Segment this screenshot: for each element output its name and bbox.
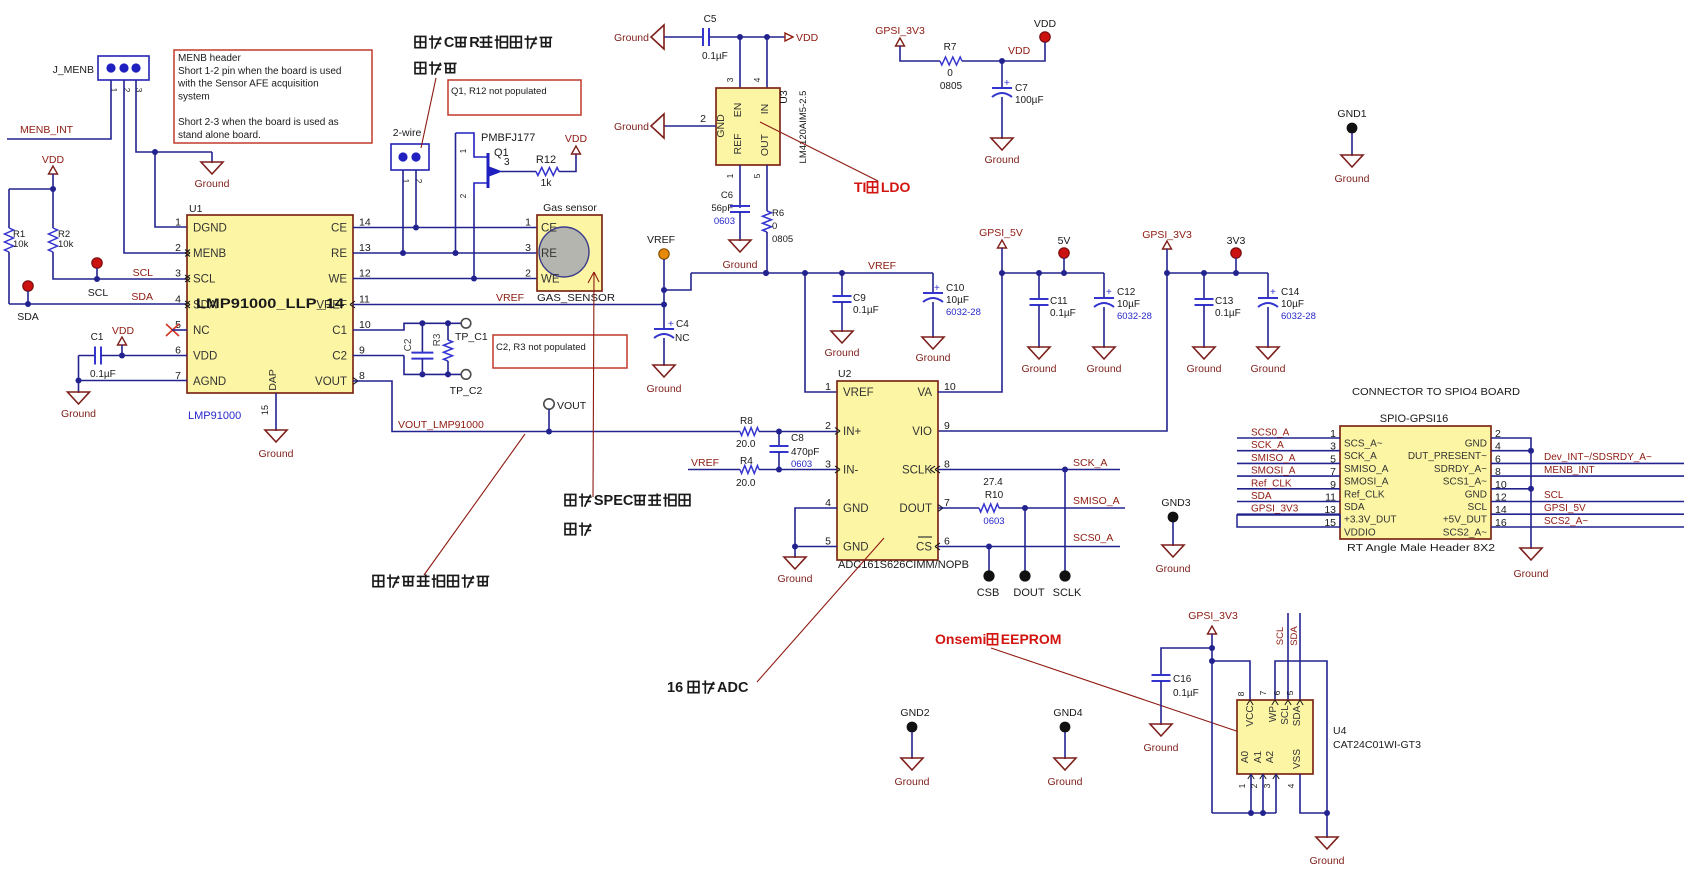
- ground (U3 GND): [614, 114, 664, 138]
- resistor R10 27.4 0603: [938, 477, 1005, 527]
- svg-text:CAT24C01WI-GT3: CAT24C01WI-GT3: [1333, 739, 1421, 751]
- ground (C7): [984, 138, 1019, 166]
- svg-text:7: 7: [1258, 690, 1268, 695]
- svg-text:1: 1: [459, 148, 468, 153]
- ground (C9): [824, 331, 859, 359]
- svg-text:GPSI_3V3: GPSI_3V3: [1251, 504, 1299, 515]
- wire CE: [353, 227, 537, 229]
- svg-text:TP_C2: TP_C2: [450, 385, 483, 397]
- testpoint VOUT: [544, 399, 587, 432]
- svg-text:WE: WE: [328, 274, 347, 286]
- svg-text:27.4: 27.4: [983, 477, 1003, 488]
- svg-text:6032-28: 6032-28: [1281, 311, 1316, 322]
- wire U1 pin5 stub: [172, 329, 187, 331]
- no-connect X on U1 pin5 NC: [166, 324, 179, 336]
- svg-text:16: 16: [667, 680, 683, 696]
- svg-text:10µF: 10µF: [946, 295, 969, 306]
- svg-text:VDD: VDD: [112, 325, 135, 337]
- svg-text:GND4: GND4: [1053, 707, 1082, 719]
- svg-text:4: 4: [1286, 783, 1296, 788]
- ground (C10): [915, 337, 950, 364]
- svg-text:20.0: 20.0: [736, 439, 756, 450]
- svg-text:TI: TI: [854, 179, 866, 195]
- wire net SMOSI_A (connector pin 7): [1237, 466, 1340, 477]
- svg-text:SCL: SCL: [133, 267, 154, 279]
- svg-text:SCL: SCL: [193, 274, 216, 286]
- svg-text:56pF: 56pF: [711, 203, 733, 214]
- svg-text:SDRDY_A~: SDRDY_A~: [1434, 464, 1487, 475]
- capacitor C2 (not populated): [403, 323, 433, 374]
- ground (U2 GND): [777, 547, 812, 586]
- capacitor C5 0.1uF: [664, 14, 740, 62]
- svg-text:IN-: IN-: [843, 465, 859, 477]
- svg-text:GND3: GND3: [1161, 497, 1190, 509]
- svg-text:+5V_DUT: +5V_DUT: [1443, 515, 1487, 526]
- ground (AGND/C1): [61, 381, 96, 421]
- svg-text:SCS0_A: SCS0_A: [1073, 532, 1113, 544]
- svg-text:0.1µF: 0.1µF: [1050, 308, 1076, 319]
- svg-text:MENB: MENB: [193, 248, 227, 260]
- svg-text:A0: A0: [1240, 750, 1251, 763]
- svg-text:5V: 5V: [1058, 235, 1071, 247]
- svg-text:VDD: VDD: [1008, 45, 1031, 57]
- testpoint VREF (orange): [647, 234, 675, 308]
- svg-text:Onsemi: Onsemi: [935, 631, 986, 647]
- svg-text:C8: C8: [791, 433, 804, 444]
- svg-text:8: 8: [1236, 691, 1246, 696]
- wire bottom rail to TP_C2: [353, 356, 461, 378]
- capacitor C14 10uF 6032-28: [1258, 273, 1316, 347]
- svg-text:DOUT: DOUT: [899, 503, 932, 515]
- svg-text:VDD: VDD: [1034, 18, 1057, 30]
- connector SPIO-GPSI16 header: [1340, 386, 1520, 539]
- svg-text:VDD: VDD: [565, 133, 588, 145]
- svg-text:VREF: VREF: [691, 457, 719, 469]
- annotation analog voltage output (Chinese): [373, 434, 525, 588]
- svg-text:C2, R3 not populated: C2, R3 not populated: [496, 342, 586, 353]
- power 5V (red testpoint): [1058, 235, 1071, 273]
- ground (GND2): [894, 758, 929, 788]
- svg-text:Ground: Ground: [1143, 742, 1178, 754]
- svg-text:AGND: AGND: [193, 376, 226, 388]
- svg-text:Ground: Ground: [915, 352, 950, 364]
- wire net SMISO_A (connector pin 5): [1237, 453, 1340, 464]
- svg-text:C6: C6: [721, 190, 733, 201]
- wire VREF rail: [691, 270, 933, 276]
- wire net SCS0_A (connector pin 1): [1237, 428, 1340, 439]
- svg-text:Ground: Ground: [722, 259, 757, 271]
- svg-text:6: 6: [1272, 690, 1282, 695]
- capacitor C13 0.1uF: [1195, 273, 1241, 347]
- net GPSI_3V3 (rail): [1142, 229, 1192, 276]
- power VDD (R1/R2 pullups): [42, 154, 65, 189]
- svg-text:VCC: VCC: [1245, 705, 1256, 726]
- svg-text:SCL: SCL: [1275, 627, 1286, 645]
- svg-text:Ground: Ground: [1513, 568, 1548, 580]
- svg-text:2: 2: [700, 113, 706, 125]
- svg-text:DGND: DGND: [193, 223, 227, 235]
- svg-text:Short 2-3 when the board is us: Short 2-3 when the board is used as: [178, 117, 339, 128]
- wire WE: [353, 278, 537, 280]
- ground (GND3): [1155, 545, 1190, 575]
- power VDD (C1): [112, 325, 135, 359]
- resistor R3 (not populated): [432, 323, 453, 374]
- capacitor C4 NC: [654, 305, 689, 366]
- wire connector pin4: [1491, 448, 1534, 454]
- svg-text:Ground: Ground: [777, 573, 812, 585]
- svg-text:MENB header: MENB header: [178, 53, 241, 64]
- svg-text:3: 3: [725, 77, 735, 82]
- svg-text:0805: 0805: [940, 81, 963, 92]
- svg-text:SMISO_A: SMISO_A: [1073, 495, 1120, 507]
- svg-text:GAS_SENSOR: GAS_SENSOR: [537, 292, 615, 304]
- wire SCS0_A net: [938, 532, 1120, 550]
- svg-text:VDDIO: VDDIO: [1344, 528, 1376, 539]
- svg-text:NC: NC: [193, 325, 210, 337]
- wire net GPSI_5V (pin 14): [1491, 503, 1684, 514]
- svg-text:C4: C4: [676, 319, 689, 330]
- svg-text:IN: IN: [759, 104, 771, 115]
- svg-text:LDO: LDO: [881, 179, 911, 195]
- pin arrows U2: [835, 428, 943, 550]
- wire WP pin7 to ground rail: [1258, 661, 1327, 813]
- svg-text:ADC161S626CIMM/NOPB: ADC161S626CIMM/NOPB: [838, 559, 969, 571]
- svg-text:EEPROM: EEPROM: [1001, 631, 1062, 647]
- wire VSS pin4 to ground: [1286, 774, 1330, 816]
- wire J_MENB pin2 to U1 MENB: [124, 80, 187, 253]
- svg-text:GND: GND: [715, 114, 727, 138]
- ground (U4 VSS): [1309, 813, 1344, 867]
- svg-text:SCS2_A~: SCS2_A~: [1544, 516, 1588, 527]
- svg-text:C9: C9: [853, 293, 866, 304]
- svg-text:2: 2: [459, 193, 468, 198]
- svg-text:C10: C10: [946, 283, 965, 294]
- svg-text:SDA: SDA: [131, 291, 153, 303]
- svg-text:C7: C7: [1015, 83, 1028, 94]
- svg-text:470pF: 470pF: [791, 447, 819, 458]
- svg-text:CONNECTOR TO SPIO4 BOARD: CONNECTOR TO SPIO4 BOARD: [1352, 386, 1520, 398]
- svg-text:Ref_CLK: Ref_CLK: [1344, 489, 1385, 500]
- svg-text:C2: C2: [403, 338, 414, 351]
- svg-text:Ref_CLK: Ref_CLK: [1251, 478, 1292, 489]
- svg-text:MENB_INT: MENB_INT: [1544, 465, 1595, 476]
- svg-text:VOUT: VOUT: [557, 400, 587, 412]
- wire net SCS2_A~ (pin 16): [1491, 516, 1684, 527]
- svg-text:RE: RE: [331, 248, 347, 260]
- svg-text:Ground: Ground: [824, 347, 859, 359]
- svg-text:GND1: GND1: [1337, 108, 1366, 120]
- svg-text:Ground: Ground: [614, 121, 649, 133]
- svg-text:6032-28: 6032-28: [946, 307, 981, 318]
- svg-text:SPEC: SPEC: [594, 493, 634, 509]
- net GPSI_3V3 (EEPROM): [1188, 610, 1238, 813]
- svg-text:LMP91000: LMP91000: [188, 410, 241, 422]
- note box C2 R3 not populated: [493, 335, 627, 368]
- svg-text:2: 2: [175, 242, 181, 254]
- svg-text:VDD: VDD: [796, 32, 819, 44]
- svg-text:+: +: [1106, 287, 1112, 298]
- ground (C4): [646, 365, 681, 395]
- note box MENB header instructions: [174, 50, 372, 143]
- power VDD (C5 rail): [785, 32, 819, 44]
- svg-text:WP: WP: [1268, 706, 1279, 722]
- svg-text:Dev_INT~/SDSRDY_A~: Dev_INT~/SDSRDY_A~: [1544, 452, 1652, 463]
- testpoint GND2: [900, 707, 929, 758]
- wire RE: [353, 252, 537, 254]
- ground (DAP): [258, 430, 293, 460]
- svg-text:C1: C1: [332, 325, 347, 337]
- wire connector pin10 GND: [1491, 486, 1534, 492]
- capacitor C12 10uF 6032-28: [1094, 273, 1152, 347]
- svg-text:system: system: [178, 91, 210, 102]
- svg-text:SCL: SCL: [1544, 490, 1564, 501]
- wire VCC pin8: [1212, 661, 1250, 700]
- wire U3 OUT to VREF rail: [763, 270, 769, 276]
- svg-text:R6: R6: [772, 208, 784, 219]
- testpoint SDA (red): [17, 281, 39, 323]
- wire U3 GND pin2: [664, 113, 716, 126]
- wire SCK_A net: [938, 457, 1120, 473]
- capacitor C16 0.1uF: [1152, 648, 1213, 724]
- svg-text:GND: GND: [1465, 439, 1487, 450]
- ground (C5): [614, 25, 664, 49]
- wire net SDA (connector pin 11): [1237, 491, 1340, 502]
- svg-text:U1: U1: [189, 203, 203, 215]
- svg-text:SDA: SDA: [1344, 502, 1365, 513]
- svg-text:C2: C2: [332, 351, 347, 363]
- svg-text:Ground: Ground: [1047, 776, 1082, 788]
- testpoint SCLK: [1053, 470, 1082, 600]
- IC U3 LM4120AIM5-2.5 LDO: [715, 88, 809, 165]
- svg-text:Gas sensor: Gas sensor: [543, 202, 597, 214]
- svg-text:Q1, R12 not populated: Q1, R12 not populated: [451, 86, 547, 97]
- svg-text:0805: 0805: [772, 234, 793, 245]
- wire U2 GND pins to ground: [792, 508, 837, 550]
- svg-text:C16: C16: [1173, 674, 1192, 685]
- svg-text:Ground: Ground: [258, 448, 293, 460]
- svg-text:4: 4: [752, 77, 762, 82]
- svg-text:MENB_INT: MENB_INT: [20, 124, 74, 136]
- ground (GND4): [1047, 758, 1082, 788]
- svg-text:RE: RE: [541, 248, 557, 260]
- wire C5 to VDD arrow: [737, 34, 785, 40]
- svg-text:SCK_A: SCK_A: [1251, 440, 1284, 451]
- wire 2-wire pin2 to CE: [413, 170, 419, 231]
- svg-text:2-wire: 2-wire: [393, 127, 422, 139]
- svg-text:C14: C14: [1281, 287, 1300, 298]
- net GPSI_5V: [979, 227, 1023, 276]
- wire 2-wire pin1 to RE: [400, 170, 406, 256]
- resistor R1 10k: [5, 189, 29, 304]
- resistor R8 20.0: [736, 416, 837, 450]
- svg-text:Ground: Ground: [1309, 855, 1344, 867]
- svg-text:R8: R8: [740, 416, 753, 427]
- svg-text:DOUT: DOUT: [1013, 587, 1044, 599]
- svg-text:SCLK: SCLK: [902, 465, 932, 477]
- svg-text:SMOSI_A: SMOSI_A: [1344, 477, 1389, 488]
- svg-text:15: 15: [260, 405, 270, 415]
- svg-text:VREF: VREF: [647, 234, 675, 246]
- annotation TI LDO (red): [760, 122, 911, 195]
- svg-text:GND: GND: [1465, 489, 1487, 500]
- wire VOUT_LMP91000 / IN+ net: [353, 381, 740, 435]
- svg-text:Ground: Ground: [1021, 363, 1056, 375]
- svg-text:SCS1_A~: SCS1_A~: [1443, 477, 1487, 488]
- svg-text:3: 3: [1262, 783, 1272, 788]
- svg-text:WE: WE: [541, 274, 560, 286]
- wire SMISO_A net: [999, 495, 1125, 511]
- svg-text:C: C: [444, 35, 455, 51]
- svg-text:GPSI_3V3: GPSI_3V3: [1188, 610, 1238, 622]
- svg-text:DAP: DAP: [267, 369, 279, 391]
- svg-text:R3: R3: [432, 333, 443, 346]
- svg-text:Ground: Ground: [1086, 363, 1121, 375]
- svg-text:VA: VA: [918, 387, 933, 399]
- annotation 16-bit ADC (Chinese): [667, 538, 884, 696]
- svg-text:C5: C5: [704, 14, 717, 25]
- wire SDA to U1: [9, 303, 187, 305]
- svg-text:IN+: IN+: [843, 426, 862, 438]
- ground (connector): [1513, 544, 1548, 580]
- svg-text:LMP91000_LLP_14: LMP91000_LLP_14: [196, 295, 344, 311]
- svg-text:1: 1: [525, 217, 531, 229]
- svg-text:VOUT: VOUT: [315, 376, 347, 388]
- svg-text:3: 3: [525, 242, 531, 254]
- resistor R12 1k: [501, 154, 559, 189]
- svg-text:6032-28: 6032-28: [1117, 311, 1152, 322]
- svg-text:C1: C1: [91, 332, 104, 343]
- svg-text:0603: 0603: [714, 216, 735, 227]
- svg-text:stand alone board.: stand alone board.: [178, 130, 261, 141]
- svg-text:OUT: OUT: [759, 133, 771, 156]
- svg-text:3: 3: [504, 157, 510, 168]
- svg-text:10k: 10k: [13, 239, 29, 250]
- svg-text:VSS: VSS: [1292, 749, 1303, 769]
- annotation line to 2-wire: [421, 78, 436, 148]
- svg-text:100µF: 100µF: [1015, 95, 1044, 106]
- ground (C16): [1143, 724, 1178, 754]
- svg-text:GND: GND: [843, 542, 869, 554]
- testpoint GND3: [1161, 497, 1190, 545]
- testpoint GND1: [1337, 108, 1366, 155]
- svg-text:VDD: VDD: [42, 154, 65, 166]
- svg-text:Ground: Ground: [894, 776, 929, 788]
- svg-text:SCL: SCL: [1280, 705, 1291, 725]
- wire 3V3 rail: [1167, 270, 1268, 276]
- svg-text:3V3: 3V3: [1227, 235, 1246, 247]
- wire U2 VA to 5V rail: [938, 273, 1002, 392]
- annotation text short C and R pins (Chinese): [415, 35, 552, 75]
- svg-text:3: 3: [175, 268, 181, 280]
- wire 5V rail: [1002, 270, 1104, 276]
- connector 2-wire header: [391, 127, 429, 184]
- svg-text:SCS0_A: SCS0_A: [1251, 428, 1290, 439]
- svg-text:VREF: VREF: [496, 292, 524, 304]
- svg-text:SDA: SDA: [1251, 491, 1272, 502]
- IC U4 CAT24C01WI-GT3 EEPROM: [1237, 700, 1421, 779]
- capacitor C9 0.1uF: [833, 273, 879, 331]
- svg-text:GPSI_3V3: GPSI_3V3: [875, 25, 925, 37]
- ground (C12): [1086, 347, 1121, 375]
- connector J_MENB 3-pin header: [53, 56, 149, 93]
- resistor R2 10k: [49, 189, 188, 279]
- svg-text:U2: U2: [838, 368, 852, 380]
- svg-text:1: 1: [1237, 783, 1247, 788]
- svg-text:20.0: 20.0: [736, 478, 756, 489]
- svg-text:RT Angle Male Header 8X2: RT Angle Male Header 8X2: [1347, 542, 1495, 554]
- svg-text:VOUT_LMP91000: VOUT_LMP91000: [398, 419, 484, 431]
- svg-text:SMISO_A: SMISO_A: [1344, 464, 1389, 475]
- wire net SCK_A (connector pin 3): [1237, 440, 1340, 451]
- svg-text:10k: 10k: [58, 239, 74, 250]
- svg-text:Ground: Ground: [984, 154, 1019, 166]
- svg-text:9: 9: [944, 420, 950, 432]
- wire VDD to R1/R2: [9, 186, 56, 192]
- wire connector pin2 GND: [1491, 438, 1531, 544]
- testpoint TP_C1: [455, 319, 488, 344]
- resistor R7 0 0805: [940, 42, 1005, 92]
- IC U2 ADC161S626CIMM/NOPB: [825, 368, 969, 571]
- svg-text:0.1µF: 0.1µF: [90, 369, 116, 380]
- svg-text:SDA: SDA: [1289, 626, 1300, 646]
- wire net MENB_INT (pin 8): [1491, 465, 1684, 476]
- annotation Onsemi EEPROM (red): [935, 631, 1260, 739]
- pin arrows U1 MENB/SCL/SDA/VREF/VOUT: [185, 250, 358, 385]
- svg-text:0603: 0603: [791, 459, 812, 470]
- wire AGND: [76, 356, 188, 384]
- svg-text:Ground: Ground: [1155, 563, 1190, 575]
- annotation 3-pin SPEC gas sensor (Chinese): [565, 493, 690, 536]
- svg-text:U4: U4: [1333, 725, 1347, 737]
- svg-text:SCS2_A~: SCS2_A~: [1443, 528, 1487, 539]
- wire U1 DAP pin 15: [260, 393, 276, 430]
- svg-text:R4: R4: [740, 456, 753, 467]
- testpoint DOUT: [1013, 508, 1044, 599]
- ground (C6): [722, 240, 757, 271]
- svg-text:SCLK: SCLK: [1053, 587, 1082, 599]
- transistor Q1 PMBFJ177: [456, 132, 536, 198]
- resistor R4 20.0: [688, 456, 837, 489]
- wire GPSI_3V3 down to U2 VIO: [938, 273, 1167, 431]
- svg-text:TP_C1: TP_C1: [455, 331, 488, 343]
- svg-text:LM4120AIM5-2.5: LM4120AIM5-2.5: [798, 91, 809, 164]
- wire VREF step to rail: [664, 273, 691, 290]
- svg-text:GND2: GND2: [900, 707, 929, 719]
- svg-text:1: 1: [825, 381, 831, 393]
- svg-text:DUT_PRESENT~: DUT_PRESENT~: [1408, 451, 1487, 462]
- svg-text:R12: R12: [536, 154, 556, 166]
- svg-text:VREF: VREF: [868, 260, 896, 272]
- svg-text:PMBFJ177: PMBFJ177: [481, 132, 535, 144]
- ground (J_MENB pin3): [194, 152, 229, 190]
- svg-text:10µF: 10µF: [1117, 299, 1140, 310]
- svg-text:A2: A2: [1265, 750, 1276, 763]
- svg-text:Ground: Ground: [1334, 173, 1369, 185]
- annotation arrow to gas sensor: [588, 272, 599, 497]
- testpoint CSB: [977, 547, 1000, 600]
- svg-text:REF: REF: [732, 134, 744, 155]
- resistor R6 0 0805: [752, 165, 793, 273]
- wire net SDA (EEPROM): [1285, 613, 1300, 700]
- capacitor C7 100uF: [992, 61, 1044, 138]
- svg-text:Short 1-2 pin when the board i: Short 1-2 pin when the board is used: [178, 66, 341, 77]
- svg-text:Ground: Ground: [646, 383, 681, 395]
- svg-text:SCL: SCL: [1468, 502, 1488, 513]
- svg-text:SCS_A~: SCS_A~: [1344, 439, 1383, 450]
- svg-text:0.1µF: 0.1µF: [853, 305, 879, 316]
- wire net Ref_CLK (connector pin 9): [1237, 478, 1340, 489]
- ground (C14): [1250, 347, 1285, 375]
